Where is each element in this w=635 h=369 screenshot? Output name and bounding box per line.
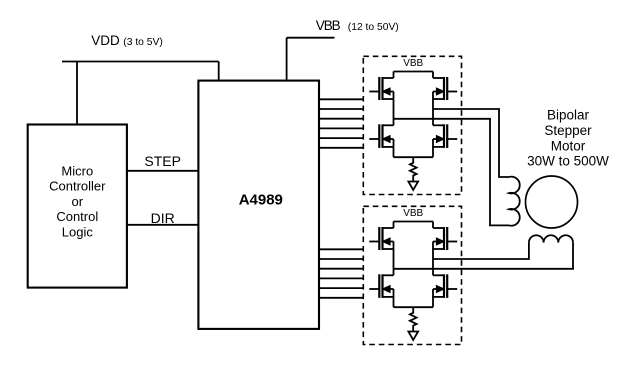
svg-text:STEP: STEP — [144, 153, 181, 169]
svg-text:A4989: A4989 — [239, 192, 283, 209]
svg-text:30W to 500W: 30W to 500W — [527, 154, 609, 169]
svg-text:or: or — [72, 194, 84, 209]
svg-text:Logic: Logic — [62, 224, 94, 239]
svg-text:Control: Control — [56, 209, 98, 224]
svg-text:VDD: VDD — [91, 33, 120, 48]
svg-text:DIR: DIR — [151, 210, 175, 226]
svg-text:VBB: VBB — [403, 208, 423, 219]
svg-text:Controller: Controller — [49, 179, 106, 194]
svg-text:Motor: Motor — [551, 138, 586, 153]
svg-text:(3 to 5V): (3 to 5V) — [123, 37, 163, 48]
svg-text:VBB: VBB — [316, 18, 341, 33]
svg-text:Micro: Micro — [61, 163, 93, 178]
svg-text:VBB: VBB — [403, 58, 423, 69]
svg-text:(12 to 50V): (12 to 50V) — [348, 22, 399, 33]
svg-text:Stepper: Stepper — [544, 123, 592, 138]
svg-text:Bipolar: Bipolar — [547, 108, 590, 123]
